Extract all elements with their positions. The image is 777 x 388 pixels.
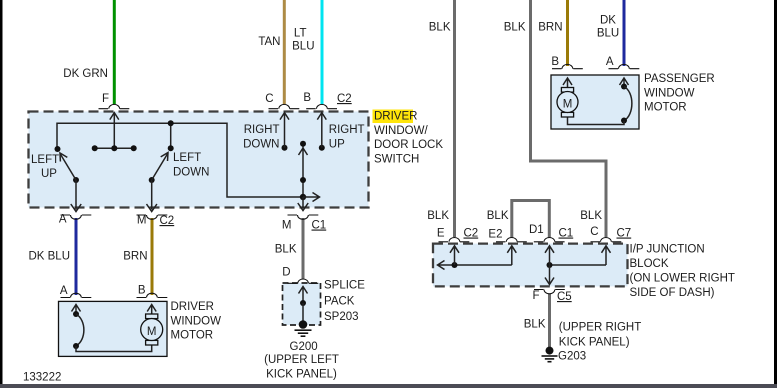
svg-text:WINDOW: WINDOW xyxy=(171,315,222,327)
switch LEFT UP xyxy=(55,146,82,212)
svg-text:A: A xyxy=(606,56,614,68)
connector passenger motor pin B xyxy=(552,64,583,68)
svg-text:LT: LT xyxy=(294,28,307,40)
svg-text:DK BLU: DK BLU xyxy=(28,251,70,263)
connector junction pin C C7 xyxy=(591,238,622,242)
svg-text:C5: C5 xyxy=(557,291,572,303)
passenger window motor box xyxy=(551,75,639,129)
svg-text:SIDE OF DASH): SIDE OF DASH) xyxy=(630,287,715,299)
wire BRN driver motor xyxy=(151,218,154,295)
svg-text:DRIVER: DRIVER xyxy=(374,111,417,123)
svg-text:BRN: BRN xyxy=(123,251,147,263)
connector junction pin E xyxy=(439,238,470,242)
svg-text:UP: UP xyxy=(329,139,345,151)
driver motor internal circuit xyxy=(72,305,157,352)
wire RIGHT UP arrow xyxy=(317,113,326,151)
wire DK BLU passenger motor xyxy=(623,0,626,66)
wire RIGHT DOWN arrow xyxy=(280,113,289,151)
svg-text:DK GRN: DK GRN xyxy=(63,68,108,80)
svg-text:E2: E2 xyxy=(488,229,502,241)
svg-text:PASSENGER: PASSENGER xyxy=(644,73,715,85)
svg-text:D1: D1 xyxy=(529,224,544,236)
svg-text:DRIVER: DRIVER xyxy=(171,301,214,313)
svg-text:SPLICE: SPLICE xyxy=(324,280,365,292)
svg-text:KICK PANEL): KICK PANEL) xyxy=(266,369,337,381)
svg-text:BLU: BLU xyxy=(292,41,314,53)
svg-text:C: C xyxy=(590,226,598,238)
svg-text:BLK: BLK xyxy=(427,210,449,222)
connector driver motor pin B xyxy=(137,293,168,297)
svg-text:C1: C1 xyxy=(559,228,574,240)
wire BLK C5 to G203 xyxy=(548,294,551,348)
svg-text:BRN: BRN xyxy=(538,22,562,34)
svg-text:BLK: BLK xyxy=(487,210,509,222)
svg-text:A: A xyxy=(60,285,68,297)
driver window motor box xyxy=(59,301,168,356)
connector pin M C1 bottom xyxy=(288,215,319,219)
border frame bottom xyxy=(0,384,777,388)
svg-text:PACK: PACK xyxy=(324,296,355,308)
connector pin A bottom xyxy=(61,215,92,219)
lock switch center branch xyxy=(298,141,320,211)
svg-text:DK: DK xyxy=(600,15,616,27)
svg-text:C2: C2 xyxy=(160,215,175,227)
I/P junction block box xyxy=(433,244,628,287)
svg-text:M: M xyxy=(563,98,573,110)
wire BLK 1 to junction pin E xyxy=(453,0,456,237)
switch rail wire xyxy=(57,123,303,197)
svg-text:G203: G203 xyxy=(558,351,586,363)
svg-text:BLU: BLU xyxy=(597,28,619,40)
svg-text:WINDOW/: WINDOW/ xyxy=(374,125,428,137)
splice pack SP203 box xyxy=(283,283,321,325)
wire TAN xyxy=(283,0,286,104)
svg-text:LEFT: LEFT xyxy=(173,152,201,164)
svg-text:C2: C2 xyxy=(464,228,479,240)
connector junction pin D1 C1 xyxy=(534,238,565,242)
motor M driver xyxy=(141,314,163,345)
svg-text:E: E xyxy=(437,228,445,240)
wire DK BLU driver motor xyxy=(75,218,78,295)
switch LEFT DOWN xyxy=(147,145,174,211)
svg-text:BLK: BLK xyxy=(429,22,451,34)
svg-text:M: M xyxy=(282,220,292,232)
connector driver motor pin A xyxy=(61,293,92,297)
svg-text:BLOCK: BLOCK xyxy=(630,258,669,270)
svg-text:F: F xyxy=(532,290,539,302)
svg-text:KICK PANEL): KICK PANEL) xyxy=(559,336,630,348)
svg-text:C2: C2 xyxy=(337,93,352,105)
svg-text:B: B xyxy=(303,92,311,104)
svg-text:BLK: BLK xyxy=(524,319,546,331)
svg-text:SWITCH: SWITCH xyxy=(374,153,419,165)
svg-text:BLK: BLK xyxy=(580,210,602,222)
connector pin F xyxy=(99,104,130,108)
connector pin B xyxy=(306,104,337,108)
svg-text:F: F xyxy=(102,93,109,105)
ground G203 xyxy=(542,347,558,362)
svg-text:RIGHT: RIGHT xyxy=(329,124,365,136)
wire BLK C1 to splice pack xyxy=(302,218,305,279)
passenger motor internal circuit xyxy=(563,78,632,125)
svg-text:DOWN: DOWN xyxy=(173,167,209,179)
wire LT BLU xyxy=(321,0,324,104)
svg-text:B: B xyxy=(138,285,146,297)
svg-text:(ON LOWER RIGHT: (ON LOWER RIGHT xyxy=(630,273,735,285)
border frame right xyxy=(774,0,777,388)
svg-text:BLK: BLK xyxy=(275,244,297,256)
connector junction pin E2 xyxy=(496,238,527,242)
svg-text:MOTOR: MOTOR xyxy=(171,330,214,342)
svg-text:BLK: BLK xyxy=(504,22,526,34)
wire DK GRN xyxy=(113,0,116,104)
svg-text:C7: C7 xyxy=(617,228,632,240)
svg-text:C: C xyxy=(265,93,273,105)
connector passenger motor pin A xyxy=(609,64,640,68)
wire BRN passenger motor xyxy=(566,0,569,66)
motor M passenger xyxy=(557,88,578,118)
connector pin M bottom xyxy=(137,215,168,219)
svg-text:M: M xyxy=(137,215,147,227)
node cluster xyxy=(95,147,134,149)
svg-text:A: A xyxy=(59,214,67,226)
svg-text:B: B xyxy=(551,56,559,68)
connector pin C xyxy=(269,104,300,108)
wire pin F arrow xyxy=(110,113,119,149)
svg-text:RIGHT: RIGHT xyxy=(244,124,280,136)
svg-text:C1: C1 xyxy=(312,220,327,232)
svg-text:I/P JUNCTION: I/P JUNCTION xyxy=(630,244,705,256)
svg-text:M: M xyxy=(147,326,157,338)
svg-text:133222: 133222 xyxy=(23,372,61,384)
svg-text:WINDOW: WINDOW xyxy=(644,87,695,99)
svg-text:UP: UP xyxy=(41,168,57,180)
wire jumper E2 to D1 xyxy=(512,201,550,239)
svg-text:(UPPER RIGHT: (UPPER RIGHT xyxy=(559,322,641,334)
svg-text:DOOR LOCK: DOOR LOCK xyxy=(374,139,443,151)
wire BLK 2 to junction pin C xyxy=(531,0,607,237)
label DRIVER highlighted xyxy=(373,110,414,124)
border frame left xyxy=(0,0,3,388)
connector splice pin D xyxy=(288,279,319,283)
svg-text:G200: G200 xyxy=(290,341,318,353)
svg-text:(UPPER LEFT: (UPPER LEFT xyxy=(264,354,339,366)
ground G200 xyxy=(295,320,312,336)
junction block internal circuit xyxy=(438,246,611,285)
svg-text:D: D xyxy=(282,267,290,279)
driver window/door lock switch box xyxy=(29,112,369,208)
svg-text:DOWN: DOWN xyxy=(243,139,279,151)
splice pack internal wire xyxy=(299,287,308,323)
connector junction pin F C5 bottom xyxy=(534,290,565,294)
svg-text:TAN: TAN xyxy=(258,36,280,48)
svg-text:SP203: SP203 xyxy=(324,311,359,323)
svg-text:MOTOR: MOTOR xyxy=(644,102,687,114)
svg-text:LEFT: LEFT xyxy=(31,154,59,166)
node rail to left-down switch xyxy=(170,123,172,148)
